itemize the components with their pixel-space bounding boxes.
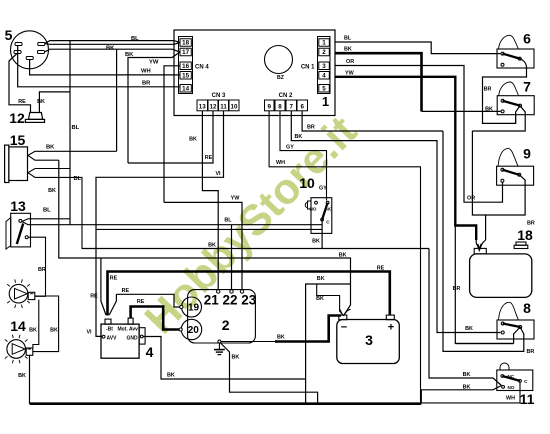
svg-text:BL: BL <box>72 125 80 131</box>
switch 8 blade <box>503 324 521 328</box>
svg-text:BL: BL <box>131 36 139 42</box>
switch 6 blade <box>503 54 520 59</box>
svg-text:GY: GY <box>286 144 294 150</box>
svg-text:BK: BK <box>232 355 240 361</box>
svg-text:BK: BK <box>208 243 216 249</box>
svg-text:RE: RE <box>90 294 98 300</box>
svg-text:VI: VI <box>215 171 221 177</box>
svg-text:BK: BK <box>29 328 37 334</box>
svg-text:14: 14 <box>182 85 189 92</box>
svg-text:2: 2 <box>322 49 326 56</box>
wire BK switch 10 common <box>321 220 323 249</box>
svg-text:20: 20 <box>188 325 200 336</box>
svg-text:AVV: AVV <box>107 336 118 342</box>
engine ground <box>218 340 221 343</box>
wire BK horn upper wedge to pin-17 riser <box>28 151 117 155</box>
switch 9 common leg <box>519 175 525 181</box>
wire BK pin 13 to engine terminal 21 <box>202 111 218 290</box>
wire BK common bus to switch 11 NO upper <box>429 249 502 386</box>
svg-text:NO: NO <box>508 385 515 390</box>
svg-text:BK: BK <box>463 372 471 378</box>
svg-text:BK: BK <box>106 46 115 52</box>
svg-text:9: 9 <box>268 104 272 111</box>
connector CN4 <box>179 37 193 94</box>
wire YW to engine terminal 23 <box>164 202 242 289</box>
svg-text:RE: RE <box>122 288 130 294</box>
microswitch 7 <box>497 96 534 115</box>
wire BR riser to switch 8 right leg <box>443 131 524 351</box>
svg-text:+: + <box>388 322 394 334</box>
svg-text:BK: BK <box>465 326 473 332</box>
svg-text:1: 1 <box>322 94 329 109</box>
wire BK lamp to ground bus <box>29 355 31 403</box>
wire GY pin 8 to switch 10 <box>280 111 327 201</box>
svg-text:11: 11 <box>220 104 227 111</box>
control unit 1 <box>174 30 335 116</box>
svg-text:CN 4: CN 4 <box>195 64 209 70</box>
svg-text:BL: BL <box>224 218 232 224</box>
buzzer BZ inside control unit <box>265 46 293 74</box>
wire WH key switch bottom terminal to pin 15 <box>30 60 180 75</box>
svg-text:BR: BR <box>38 267 46 273</box>
svg-text:BK: BK <box>167 373 175 379</box>
svg-text:11: 11 <box>520 391 535 407</box>
wire GND relay to battery minus <box>143 337 306 380</box>
svg-text:WH: WH <box>141 69 151 75</box>
svg-text:13: 13 <box>10 198 26 214</box>
wire BL to engine terminal 22 <box>231 225 233 290</box>
wire lamp chain 1 <box>33 300 39 348</box>
wire VI pin 11 to starter relay AVV <box>96 111 224 337</box>
arrow into tank 18 <box>476 240 485 250</box>
lamp 14b <box>7 340 26 359</box>
arrow into -Bt: thin V sides <box>101 299 106 315</box>
svg-text:BK: BK <box>37 99 45 105</box>
svg-text:BZ: BZ <box>277 75 285 81</box>
svg-text:16: 16 <box>182 63 189 70</box>
wire BL key switch to pin 18 <box>45 41 180 44</box>
wire BK bus y247 <box>82 248 430 250</box>
svg-text:RE: RE <box>137 299 145 305</box>
svg-text:CN 3: CN 3 <box>212 93 226 99</box>
wire BR switch 9 common net <box>472 131 485 240</box>
svg-text:−: − <box>341 322 347 334</box>
wire BR switch 7 right leg down <box>472 113 525 131</box>
svg-text:5: 5 <box>322 85 326 92</box>
watermark <box>136 107 366 343</box>
wire RE pin 12 <box>128 111 213 163</box>
wire BK engine to battery minus thick <box>221 341 275 343</box>
svg-text:BK: BK <box>344 47 352 53</box>
svg-text:BK: BK <box>312 239 320 245</box>
svg-text:4: 4 <box>322 72 326 79</box>
switch 10 blade <box>322 203 328 220</box>
svg-text:5: 5 <box>5 27 13 43</box>
engine 2 <box>188 290 256 343</box>
svg-text:BR: BR <box>484 87 492 93</box>
svg-text:21 22 23: 21 22 23 <box>204 292 257 307</box>
svg-text:3: 3 <box>365 332 373 348</box>
wire switch 13 top to BL bus <box>22 219 70 222</box>
wire RE branch to starter relay -Bt <box>100 258 102 299</box>
svg-text:VI: VI <box>86 330 92 336</box>
wire lamp chain 2 <box>33 296 59 352</box>
battery 3 <box>337 320 400 364</box>
svg-text:12: 12 <box>210 104 217 111</box>
wire BK key switch to pin 17 <box>45 49 181 52</box>
svg-text:BK: BK <box>317 276 325 282</box>
svg-text:15: 15 <box>182 72 189 79</box>
wire BK engine ground branch <box>221 343 318 404</box>
wire BL vertical branch <box>69 41 71 225</box>
svg-text:OR: OR <box>346 59 354 65</box>
svg-text:14: 14 <box>10 318 26 334</box>
starter relay 4 <box>101 324 139 358</box>
svg-text:18: 18 <box>182 40 189 47</box>
wire BK pin 2 thick to bottom bus <box>335 53 422 111</box>
svg-text:BK: BK <box>48 188 56 194</box>
wire OR pin 3 to switch 9 <box>335 66 503 203</box>
svg-text:BR: BR <box>142 80 151 86</box>
svg-text:9: 9 <box>523 146 531 162</box>
svg-text:4: 4 <box>146 344 154 360</box>
svg-text:RE: RE <box>110 276 118 282</box>
wire RE thin to alternator 19 <box>116 294 179 307</box>
switch 7 blade <box>503 101 520 106</box>
wire BK buzzer to BL vertical <box>39 92 70 113</box>
svg-text:BK: BK <box>46 145 55 151</box>
wire BR key switch top-left terminal to pin 14 <box>18 46 180 87</box>
microswitch 9 <box>497 166 534 185</box>
svg-text:BK: BK <box>316 296 324 302</box>
svg-text:6: 6 <box>523 31 531 47</box>
svg-text:17: 17 <box>182 49 189 56</box>
svg-text:3: 3 <box>322 63 326 70</box>
svg-text:7: 7 <box>290 104 294 111</box>
svg-text:BR: BR <box>527 349 535 355</box>
microswitch 8 <box>497 320 534 339</box>
wire BR switch 13 bottom to lamp <box>28 237 46 296</box>
switch 9 blade <box>502 170 519 175</box>
svg-text:CN 2: CN 2 <box>279 93 293 99</box>
svg-text:GY: GY <box>319 185 327 191</box>
wire BK engine ground to switch 11 NO lower <box>421 386 501 404</box>
svg-text:7: 7 <box>523 79 531 95</box>
svg-text:BL: BL <box>43 208 51 214</box>
switch 7 V legs <box>516 106 520 124</box>
svg-text:BK: BK <box>50 328 58 334</box>
svg-text:WH: WH <box>276 160 285 166</box>
wire RE thick bus to battery plus <box>108 272 390 316</box>
wire YW-BR lower branch to switch 8 left leg <box>455 226 513 344</box>
svg-text:Mot. Avv: Mot. Avv <box>118 326 139 332</box>
wire BR pin 6 to switch 7 common <box>302 111 443 131</box>
svg-text:RE: RE <box>205 155 213 161</box>
wire long net to battery minus <box>59 160 351 314</box>
svg-text:BL: BL <box>74 176 82 182</box>
svg-text:BR: BR <box>453 286 461 292</box>
wire BK riser horn net <box>116 49 118 151</box>
wire BR switch 6 output to switch 7 <box>483 68 527 123</box>
switch 6 output curve <box>520 59 527 68</box>
switch 11 blade <box>502 376 520 381</box>
svg-text:8: 8 <box>278 104 282 111</box>
lamp 14a <box>9 284 28 303</box>
switch 13 blade <box>17 224 23 245</box>
wire bus y229 <box>96 228 322 230</box>
wire YW pin 4 thick to tank arrow <box>335 77 476 240</box>
svg-text:YW: YW <box>231 196 241 202</box>
svg-text:BK: BK <box>18 373 26 379</box>
svg-text:BR: BR <box>307 125 315 131</box>
svg-text:19: 19 <box>188 302 200 313</box>
svg-text:BK: BK <box>485 106 493 112</box>
wire WH pin 9 to switch 11 <box>269 111 520 403</box>
svg-text:WH: WH <box>506 396 515 402</box>
svg-text:BK: BK <box>295 134 303 140</box>
svg-text:BK: BK <box>463 384 471 390</box>
svg-text:6: 6 <box>301 104 305 111</box>
connector CN1 <box>318 37 331 94</box>
svg-text:RE: RE <box>377 265 385 271</box>
svg-text:BR: BR <box>527 221 535 227</box>
wire horn upper wedge to battery net riser <box>28 155 59 160</box>
svg-text:OR: OR <box>467 196 475 202</box>
svg-text:CN 1: CN 1 <box>301 64 315 70</box>
wire RE key switch mid-left terminal to buzzer 12 <box>9 54 31 113</box>
wire BL pin 1 to switch 6 <box>335 42 501 54</box>
svg-text:BK: BK <box>339 253 347 259</box>
wire YW to pin 16 <box>164 66 180 203</box>
svg-text:BK: BK <box>189 137 197 143</box>
svg-text:1: 1 <box>322 40 326 47</box>
svg-text:18: 18 <box>517 227 533 243</box>
svg-text:13: 13 <box>199 104 206 111</box>
svg-text:10: 10 <box>231 104 238 111</box>
svg-text:RE: RE <box>18 99 26 105</box>
svg-text:YW: YW <box>345 70 355 76</box>
svg-text:YW: YW <box>149 60 159 66</box>
switch 8 V legs <box>514 327 521 344</box>
wire horn lower wedge to BL vertical <box>28 169 70 173</box>
riser battery-minus outer <box>306 284 351 404</box>
svg-text:GND: GND <box>127 336 139 342</box>
svg-text:2: 2 <box>222 317 230 333</box>
svg-text:NO: NO <box>310 207 317 212</box>
wire to pin 17 lower branch from pin 12 RE <box>128 52 180 163</box>
wire BL horn lower wedge <box>28 173 82 249</box>
starter motor 20 <box>181 319 201 339</box>
arrow into battery minus <box>340 309 351 316</box>
alternator 19 <box>182 297 202 317</box>
wire BK pin 7 to switches 7 and 8 <box>291 111 500 333</box>
svg-text:15: 15 <box>10 132 26 148</box>
svg-text:BK: BK <box>277 335 285 341</box>
wire RE thick starter relay to starter 20 <box>131 307 180 330</box>
wire switch 8 left leg return <box>456 343 513 345</box>
svg-text:10: 10 <box>299 175 315 191</box>
svg-text:BL: BL <box>344 36 352 42</box>
svg-text:12: 12 <box>9 110 25 126</box>
engine terminals 21 22 23 <box>217 290 220 293</box>
riser battery-minus inner <box>317 284 343 315</box>
svg-text:-Bt: -Bt <box>106 326 113 332</box>
svg-text:8: 8 <box>523 300 531 316</box>
microswitch 6 <box>497 49 534 68</box>
